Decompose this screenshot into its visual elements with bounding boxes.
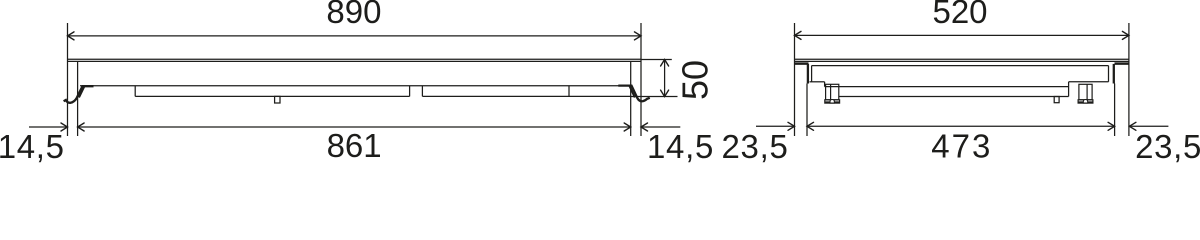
glass panel bottom line (side view): [68, 60, 642, 62]
glass facet bar left (front view): [795, 62, 809, 65]
tub bottom line left segment: [810, 81, 825, 83]
svg-text:473: 473: [931, 128, 992, 164]
tub outer wall left thick: [807, 64, 809, 84]
extension line left 520: [794, 23, 796, 136]
extension line right 861 / tub right edge: [630, 62, 632, 137]
arrow 50 bottom: [661, 90, 669, 97]
bottom dimension line: 14,5 right tail: [641, 126, 680, 128]
bottom dimension line: 14,5 left tail: [29, 126, 68, 128]
arrow 520 right: [1122, 31, 1129, 39]
arrow 23,5 right (pointing left): [1129, 122, 1136, 130]
extension line right 520: [1128, 23, 1130, 136]
clamp left inner diagonal: [79, 86, 84, 97]
extension line right 890: [640, 23, 642, 136]
tub inner wall right: [1108, 66, 1110, 82]
bottom dim: 23,5 left tail: [756, 125, 795, 127]
bottom pan box 2 left wall: [421, 86, 423, 97]
arrow 861 left: [78, 123, 85, 131]
glass top line (front view): [795, 58, 1129, 60]
spring clamp right (side view): [618, 86, 650, 102]
arrow 520 left: [795, 31, 802, 39]
svg-text:50: 50: [675, 60, 716, 100]
arrow 23,5 left (pointing right): [788, 122, 795, 130]
bottom dim: 23,5 right tail: [1130, 125, 1169, 127]
bottom pan box 1 bottom: [135, 95, 409, 97]
tub bottom line right segment: [1069, 81, 1109, 83]
pan bottom line: [839, 96, 1069, 98]
arrow 50 top: [661, 60, 669, 67]
svg-text:23,5: 23,5: [721, 128, 788, 163]
dimension line 520: [795, 34, 1129, 36]
tub underside line (side view): [80, 85, 631, 87]
50 dimension bottom tick: [631, 96, 678, 98]
svg-text:861: 861: [327, 127, 382, 163]
pan right wall: [1068, 82, 1070, 97]
pan step left: [824, 82, 826, 87]
left foot (front view): [825, 84, 840, 103]
arrow 890 right: [635, 32, 642, 40]
arrow 473 right: [1108, 122, 1115, 130]
50 dimension vertical line: [664, 60, 666, 97]
spring clamp left (side view): [64, 86, 94, 103]
small tab under pan (front view): [1054, 97, 1059, 103]
right foot (front view): [1078, 84, 1093, 103]
arrow 14,5 left (pointing right): [61, 123, 68, 131]
bottom pan divider: [568, 86, 570, 97]
svg-text:14,5: 14,5: [647, 128, 714, 163]
arrow 473 left: [807, 122, 814, 130]
svg-text:23,5: 23,5: [1135, 128, 1200, 163]
arrow 14,5 right (pointing left): [641, 123, 648, 131]
tub outer wall right thick: [1113, 64, 1115, 84]
tub top line: [812, 65, 1109, 67]
50 dimension top tick: [641, 59, 672, 61]
svg-text:520: 520: [932, 0, 987, 30]
svg-text:14,5: 14,5: [0, 128, 65, 163]
bottom dimension line 861: [78, 126, 631, 128]
bottom dimension line 473: [807, 125, 1115, 127]
clamp right inner diagonal: [630, 86, 635, 98]
bottom pan box 1 left wall: [134, 86, 136, 97]
pan top line: [825, 86, 1069, 88]
bottom pan box 2 bottom: [422, 95, 630, 97]
dimension line 890: [68, 35, 642, 37]
arrow 890 left: [68, 32, 75, 40]
bottom pan box 1 right wall: [409, 86, 411, 97]
glass bottom line (front view): [795, 60, 1129, 62]
extension line left 890: [67, 23, 69, 136]
tub inner wall left: [811, 66, 813, 82]
svg-text:890: 890: [326, 0, 381, 30]
extension line left 861 / tub left edge: [77, 62, 79, 137]
glass facet bar right (front view): [1115, 62, 1129, 65]
extension line left 473: [806, 84, 808, 137]
glass panel top line (side view): [68, 58, 642, 60]
arrow 861 right: [624, 123, 631, 131]
small tab under pan (side view): [275, 96, 280, 103]
extension line right 473: [1114, 84, 1116, 137]
